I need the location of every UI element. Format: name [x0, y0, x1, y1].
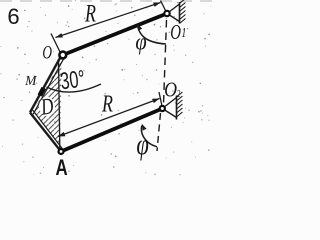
svg-text:O: O [42, 44, 52, 64]
svg-text:A: A [56, 156, 68, 176]
svg-text:1: 1 [181, 24, 186, 40]
svg-text:30°: 30° [59, 65, 87, 95]
svg-text:φ: φ [135, 28, 146, 55]
svg-text:R: R [84, 0, 96, 27]
svg-text:O: O [170, 20, 181, 43]
svg-text:2: 2 [177, 88, 181, 100]
svg-text:6: 6 [7, 4, 19, 29]
svg-text:R: R [101, 90, 113, 117]
svg-text:O: O [164, 79, 177, 102]
svg-text:M: M [24, 73, 38, 88]
svg-text:φ: φ [136, 127, 148, 161]
